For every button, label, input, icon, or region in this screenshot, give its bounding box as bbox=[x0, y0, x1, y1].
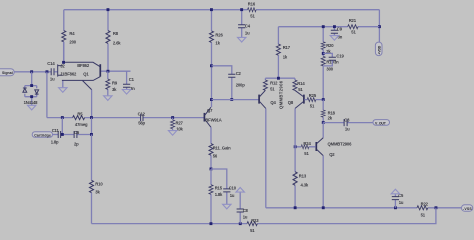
svg-text:C2: C2 bbox=[236, 71, 242, 76]
node C4 top bbox=[240, 8, 243, 11]
wire network bottom bbox=[62, 118, 91, 135]
svg-text:C10: C10 bbox=[229, 186, 237, 191]
capacitor C3 bbox=[323, 117, 373, 131]
svg-text:1N4148: 1N4148 bbox=[24, 100, 39, 105]
svg-text:R23: R23 bbox=[251, 218, 259, 223]
svg-text:QMMBT2906: QMMBT2906 bbox=[279, 80, 284, 109]
resistor R24 bbox=[295, 141, 316, 156]
resistor R20 bbox=[321, 27, 334, 54]
svg-text:R12: R12 bbox=[270, 81, 278, 86]
svg-text:R15: R15 bbox=[215, 186, 223, 191]
svg-text:56p: 56p bbox=[138, 121, 145, 126]
node signal-diode junction bbox=[30, 70, 33, 73]
ground below C10 bbox=[223, 204, 231, 209]
wire Q4 collector column bbox=[265, 108, 267, 207]
svg-text:R9: R9 bbox=[112, 80, 118, 85]
transistor Q8 bbox=[288, 90, 304, 108]
svg-text:Q8: Q8 bbox=[288, 100, 294, 105]
resistor R13 bbox=[293, 172, 309, 208]
svg-text:C1: C1 bbox=[129, 77, 135, 82]
svg-text:R24: R24 bbox=[303, 141, 311, 146]
node rail A Q2 bbox=[322, 206, 325, 209]
diode pair D1 D2 to ground bbox=[23, 72, 39, 106]
svg-text:1u: 1u bbox=[245, 30, 250, 35]
resistor R9 bbox=[106, 71, 118, 96]
wire rail B bbox=[92, 208, 436, 224]
svg-text:R27: R27 bbox=[176, 121, 184, 126]
svg-text:200: 200 bbox=[69, 40, 76, 45]
node C2 bottom bbox=[230, 98, 233, 101]
transistor Q2 bbox=[316, 142, 352, 208]
tag -VSS bbox=[462, 205, 473, 211]
wire Q7 collector to Q4 base bbox=[212, 99, 259, 101]
wire feedback vertical bbox=[46, 72, 48, 118]
capacitor C4 bbox=[238, 10, 251, 38]
svg-text:C19: C19 bbox=[336, 53, 344, 58]
node network right bbox=[90, 116, 93, 119]
svg-text:R13: R13 bbox=[299, 174, 307, 179]
svg-text:QMMBT2906: QMMBT2906 bbox=[328, 142, 353, 147]
ground above C5 bbox=[391, 189, 399, 194]
node signal-feedback junction bbox=[46, 70, 49, 73]
svg-text:Q1: Q1 bbox=[83, 72, 89, 77]
svg-text:V_OUT: V_OUT bbox=[375, 121, 387, 125]
svg-text:Q4: Q4 bbox=[270, 100, 276, 105]
node VDD joint bbox=[378, 25, 381, 28]
resistor R18 bbox=[321, 100, 335, 123]
svg-text:1u: 1u bbox=[345, 126, 350, 131]
svg-text:2p: 2p bbox=[74, 141, 79, 146]
node Q8 base column bbox=[322, 98, 325, 101]
svg-text:-VSS: -VSS bbox=[463, 207, 472, 211]
tag V_OUT bbox=[373, 120, 390, 126]
svg-text:R20: R20 bbox=[326, 43, 334, 48]
ground below jfet bbox=[59, 88, 67, 93]
resistor R25 bbox=[304, 93, 323, 109]
svg-text:C9: C9 bbox=[337, 26, 343, 31]
wire +VDD corner bbox=[378, 10, 380, 42]
svg-text:1u: 1u bbox=[50, 77, 55, 82]
svg-text:C6: C6 bbox=[74, 130, 80, 135]
node R17 bottom bbox=[277, 77, 280, 80]
svg-text:300: 300 bbox=[326, 66, 333, 71]
resistor R17 bbox=[276, 27, 290, 78]
capacitor C6 bbox=[74, 130, 80, 147]
capacitor C19 bbox=[323, 53, 344, 66]
svg-text:4.3k: 4.3k bbox=[301, 183, 309, 188]
svg-text:1u: 1u bbox=[230, 193, 235, 198]
svg-text:3n: 3n bbox=[130, 86, 135, 91]
node R8 top bbox=[107, 8, 110, 11]
wire mirror top bar bbox=[265, 77, 295, 79]
svg-text:R14: R14 bbox=[297, 81, 305, 86]
resistor R10 bbox=[90, 135, 104, 224]
capacitor C8 bbox=[237, 193, 249, 224]
capacitor C11 bbox=[51, 128, 63, 145]
svg-text:C4: C4 bbox=[245, 23, 251, 28]
capacitor C9 bbox=[331, 26, 343, 39]
resistor R16 bbox=[248, 1, 257, 18]
wire second rail bbox=[278, 26, 379, 28]
svg-text:200p: 200p bbox=[236, 82, 246, 87]
svg-text:C11: C11 bbox=[52, 128, 60, 133]
node R27 top bbox=[171, 116, 174, 119]
resistor R4 bbox=[62, 10, 77, 61]
svg-text:2.6k: 2.6k bbox=[113, 41, 121, 46]
node Q7 collector to Q4 base bbox=[210, 98, 213, 101]
svg-text:J1BF862: J1BF862 bbox=[60, 72, 77, 77]
capacitor C5 bbox=[392, 193, 404, 208]
capacitor C1 bbox=[123, 71, 135, 91]
tag Signal bbox=[0, 69, 14, 76]
capacitor C14 bbox=[47, 61, 57, 82]
resistor R14 bbox=[293, 78, 305, 92]
svg-text:1.8p: 1.8p bbox=[51, 140, 59, 145]
svg-text:Q2: Q2 bbox=[329, 152, 335, 157]
svg-text:BF862: BF862 bbox=[77, 63, 90, 68]
ground below C4 bbox=[238, 37, 246, 42]
ground below C9 bbox=[330, 36, 338, 41]
svg-text:R11_Gain: R11_Gain bbox=[213, 145, 231, 150]
power tag +VDD bbox=[375, 42, 382, 56]
ground below R27 bbox=[168, 131, 176, 136]
svg-text:C8: C8 bbox=[243, 208, 249, 213]
wire rail A bbox=[266, 207, 462, 209]
svg-text:R21: R21 bbox=[349, 18, 357, 23]
ground below R9 bbox=[104, 96, 112, 101]
resistor R12 bbox=[263, 78, 278, 92]
capacitor C10 bbox=[211, 169, 237, 204]
svg-text:R8: R8 bbox=[113, 31, 119, 36]
node Q7 collector line bbox=[210, 64, 213, 67]
node rail A railB join bbox=[435, 206, 438, 209]
wire signal input bbox=[14, 71, 51, 73]
node R26 top bbox=[210, 8, 213, 11]
svg-text:R5: R5 bbox=[77, 112, 83, 117]
wire input network top bbox=[47, 117, 204, 119]
ground above C8 bbox=[236, 188, 244, 193]
svg-text:C12: C12 bbox=[138, 112, 146, 117]
svg-text:R10: R10 bbox=[95, 182, 103, 187]
wire Q2 emitter bbox=[317, 123, 323, 144]
transistor Q4 bbox=[259, 90, 276, 108]
jfet J1 J2 BF862 input pair bbox=[58, 42, 131, 118]
node C9 bbox=[333, 25, 336, 28]
svg-text:47meg: 47meg bbox=[75, 122, 88, 127]
resistor R23 bbox=[247, 218, 259, 233]
svg-text:R25: R25 bbox=[309, 93, 317, 98]
node network bottom left bbox=[61, 133, 64, 136]
ground below C1 bbox=[122, 90, 130, 95]
svg-text:3n: 3n bbox=[334, 59, 339, 64]
node network bottom right bbox=[90, 133, 93, 136]
node Q8 collector R24 bbox=[294, 145, 297, 148]
transistor Q7 bbox=[204, 107, 221, 127]
resistor R15 bbox=[209, 169, 223, 224]
capacitor C2 bbox=[212, 66, 246, 100]
resistor R5 47meg bbox=[73, 112, 88, 128]
resistor R11_Gain bbox=[209, 127, 231, 169]
node R19 top bbox=[322, 52, 325, 55]
svg-text:Signal: Signal bbox=[2, 71, 13, 75]
node network left bbox=[61, 116, 64, 119]
resistor R22 bbox=[417, 201, 429, 217]
resistor R21 bbox=[348, 18, 358, 35]
resistor R26 bbox=[210, 10, 224, 107]
node jfet drain top bbox=[62, 61, 65, 64]
svg-text:R16: R16 bbox=[248, 1, 256, 6]
svg-text:+VDD: +VDD bbox=[377, 45, 381, 54]
svg-text:R22: R22 bbox=[421, 201, 429, 206]
resistor R27 bbox=[171, 118, 184, 132]
svg-text:R17: R17 bbox=[283, 45, 291, 50]
svg-text:BFW91A: BFW91A bbox=[205, 117, 221, 122]
svg-text:Q7: Q7 bbox=[207, 108, 213, 113]
tag Cartridge bbox=[32, 132, 52, 138]
svg-text:C3: C3 bbox=[344, 117, 350, 122]
svg-text:R26: R26 bbox=[215, 32, 223, 37]
svg-text:1.8k: 1.8k bbox=[215, 192, 223, 197]
node rail A Q8 bbox=[294, 206, 297, 209]
svg-text:Cartridge: Cartridge bbox=[34, 133, 51, 137]
ground below diodes bbox=[28, 105, 36, 110]
node rail B C8 bbox=[239, 222, 242, 225]
resistor R19 bbox=[321, 53, 334, 99]
svg-text:C14: C14 bbox=[47, 61, 55, 66]
svg-text:1u: 1u bbox=[399, 200, 404, 205]
node jfet output bbox=[107, 70, 110, 73]
label QMMBT2906 vertical bbox=[279, 80, 284, 109]
node output junction bbox=[322, 121, 325, 124]
wire top +VDD rail bbox=[64, 9, 380, 11]
node rail B R15 bbox=[210, 222, 213, 225]
resistor R8 bbox=[106, 10, 121, 71]
node rail A C5 bbox=[394, 206, 397, 209]
svg-text:R4: R4 bbox=[69, 31, 75, 36]
node R20 top bbox=[322, 25, 325, 28]
svg-text:1u: 1u bbox=[243, 214, 248, 219]
node R11 bottom bbox=[210, 168, 213, 171]
capacitor C12 bbox=[138, 112, 146, 126]
wire Q8 collector column bbox=[294, 108, 296, 171]
